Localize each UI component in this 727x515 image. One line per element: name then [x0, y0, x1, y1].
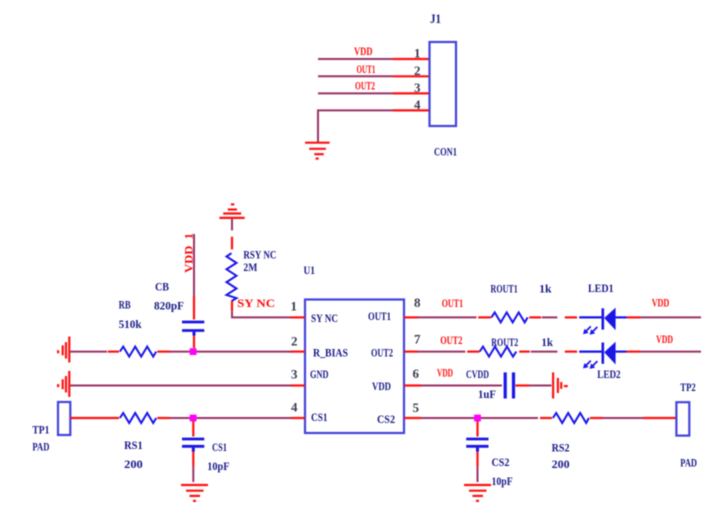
capacitor CS2 — [466, 439, 488, 452]
wire CS1 to ground — [192, 466, 194, 482]
resistor RS2 — [553, 413, 589, 423]
svg-text:PAD: PAD — [32, 442, 49, 454]
resistor RB — [120, 347, 156, 357]
svg-text:PAD: PAD — [680, 458, 697, 470]
svg-text:OUT2: OUT2 — [371, 348, 393, 360]
svg-text:200: 200 — [552, 459, 570, 471]
RB left pin — [108, 351, 119, 353]
svg-text:CON1: CON1 — [434, 147, 457, 159]
svg-text:CVDD: CVDD — [466, 369, 489, 381]
capacitor CS1 — [182, 439, 204, 452]
svg-text:5: 5 — [413, 400, 420, 415]
svg-text:J1: J1 — [430, 11, 441, 26]
resistor RS1 — [120, 413, 156, 423]
svg-text:SY NC: SY NC — [311, 313, 338, 325]
wire CS2 to ground — [477, 466, 479, 482]
svg-text:CS1: CS1 — [212, 442, 227, 454]
RS2 left pin — [540, 417, 552, 419]
wire U1 pin6 to CVDD — [421, 385, 502, 387]
svg-text:VDD: VDD — [437, 368, 453, 380]
svg-text:GND: GND — [310, 369, 329, 381]
capacitor CVDD — [505, 372, 513, 398]
svg-text:10pF: 10pF — [492, 476, 513, 488]
wire ROUT2 to LED2 — [531, 351, 558, 353]
svg-text:RS2: RS2 — [552, 442, 570, 454]
ground (left, on R_BIAS wire) — [58, 337, 69, 363]
RSY bottom pin — [231, 301, 233, 311]
CB bottom pin — [193, 336, 195, 349]
junction CS2 — [474, 415, 481, 422]
svg-text:8: 8 — [414, 295, 421, 310]
svg-text:VDD: VDD — [372, 381, 391, 393]
resistor ROUT2 — [480, 347, 517, 357]
junction CB / R_BIAS — [190, 348, 197, 355]
CS2 top pin — [476, 421, 478, 437]
wire net OUT2 to J1 pin3 — [318, 92, 393, 94]
svg-text:CS2: CS2 — [492, 457, 510, 469]
wire U1 pin5 to RS2 — [421, 417, 538, 419]
svg-text:ROUT2: ROUT2 — [491, 337, 518, 349]
LED2 cathode pin — [627, 351, 640, 353]
ROUT2 right pin — [519, 351, 530, 353]
U1 pin 5 — [404, 417, 421, 419]
J1 pin 2 — [393, 75, 430, 77]
svg-text:10pF: 10pF — [207, 461, 229, 473]
svg-text:VDD: VDD — [656, 334, 673, 346]
ROUT1 right pin — [529, 316, 541, 318]
svg-text:1k: 1k — [539, 283, 552, 295]
svg-text:1: 1 — [291, 299, 298, 314]
resistor RSY NC — [227, 253, 237, 301]
svg-text:TP1: TP1 — [32, 425, 49, 437]
TP1 pin to RS1 — [70, 417, 119, 419]
svg-text:4: 4 — [414, 97, 421, 112]
svg-text:ROUT1: ROUT1 — [491, 283, 518, 295]
J1 pin 1 — [393, 58, 430, 60]
svg-text:4: 4 — [291, 400, 298, 415]
svg-text:RS1: RS1 — [124, 440, 143, 452]
svg-text:CB: CB — [155, 282, 169, 294]
wire ROUT1 to LED1 — [542, 316, 558, 318]
wire ground to J1 pin4 — [318, 110, 393, 142]
ROUT1 left pin — [478, 316, 491, 318]
svg-text:OUT1: OUT1 — [357, 64, 376, 76]
CS1 top pin — [192, 421, 194, 437]
wire RSY to U1 pin1 — [232, 311, 291, 317]
svg-text:VDD: VDD — [652, 297, 670, 309]
svg-text:3: 3 — [291, 367, 298, 382]
TP2 pin — [643, 417, 676, 419]
svg-text:RB: RB — [119, 300, 131, 312]
connector J1 body — [430, 42, 457, 126]
svg-text:R_BIAS: R_BIAS — [313, 348, 348, 360]
U1 pin 7 — [404, 351, 418, 353]
ground (below CS1) — [181, 485, 208, 501]
svg-text:TP2: TP2 — [680, 382, 696, 394]
svg-text:2: 2 — [291, 333, 298, 348]
ground (right of CVDD) — [553, 372, 568, 398]
svg-text:LED2: LED2 — [597, 369, 620, 381]
wire net OUT1 to J1 pin2 — [318, 75, 393, 77]
wire LED1 to VDD — [640, 316, 701, 318]
svg-text:820pF: 820pF — [154, 301, 184, 313]
wire U1 pin7 to ROUT2 — [418, 351, 466, 353]
junction CS1 / CS1 wire — [190, 415, 197, 422]
wire net VDD to J1 pin1 — [318, 58, 393, 60]
svg-text:200: 200 — [124, 459, 143, 471]
op IC U1 body — [305, 300, 404, 434]
U1 pin 4 — [290, 417, 305, 419]
wire VDD_1 down to CB — [193, 234, 195, 296]
svg-text:6: 6 — [413, 366, 420, 381]
RB right pin — [157, 351, 170, 353]
CB top pin — [193, 296, 195, 320]
wire RS1 to U1 pin4 — [170, 417, 291, 419]
LED2 anode pin (dash) — [565, 351, 577, 353]
U1 pin 1 — [290, 316, 305, 318]
U1 pin 8 — [404, 316, 418, 318]
wire U1 pin8 to ROUT1 — [418, 316, 477, 318]
ground (top, above RSY) — [219, 204, 244, 218]
svg-text:3: 3 — [414, 80, 421, 95]
wire ground to RB — [70, 351, 107, 353]
diode LED1 — [579, 308, 626, 335]
svg-text:CS1: CS1 — [311, 412, 328, 424]
U1 pin 6 — [404, 384, 421, 386]
LED1 cathode pin — [627, 316, 640, 318]
CS1 bottom pin — [192, 452, 194, 467]
wire top ground to RSY — [231, 219, 233, 230]
ground (below J1 pin4 wire) — [305, 143, 330, 159]
svg-text:2: 2 — [414, 63, 421, 78]
svg-text:7: 7 — [414, 332, 421, 347]
svg-text:OUT1: OUT1 — [368, 311, 391, 323]
wire LED2 to VDD — [640, 351, 701, 353]
wire RS2 to TP2 — [603, 417, 643, 419]
RS1 right pin — [157, 417, 170, 419]
svg-text:510k: 510k — [119, 319, 143, 331]
ground (below CS2) — [464, 485, 491, 501]
resistor ROUT1 — [491, 312, 527, 322]
svg-text:LED1: LED1 — [588, 283, 614, 295]
ROUT2 left pin — [467, 351, 479, 353]
svg-text:U1: U1 — [304, 265, 316, 277]
U1 pin 2 — [290, 351, 305, 353]
svg-text:1uF: 1uF — [478, 389, 496, 401]
svg-text:OUT1: OUT1 — [442, 298, 464, 310]
svg-text:1: 1 — [414, 45, 421, 60]
svg-text:CS2: CS2 — [377, 414, 395, 426]
RSY top pin — [231, 237, 233, 250]
ground (left, on GND wire) — [58, 371, 69, 397]
RS2 right pin — [590, 417, 603, 419]
svg-text:2M: 2M — [243, 262, 257, 274]
U1 pin 3 — [290, 384, 305, 386]
test point TP1 — [58, 402, 70, 435]
capacitor CB — [182, 322, 204, 336]
J1 pin 4 — [393, 109, 430, 111]
wire RB to U1 pin2 — [170, 351, 291, 353]
CVDD right pin — [516, 384, 530, 386]
svg-text:OUT2: OUT2 — [355, 81, 375, 93]
svg-text:1k: 1k — [541, 337, 553, 349]
test point TP2 — [676, 402, 689, 435]
svg-text:RSY NC: RSY NC — [243, 249, 276, 261]
CS2 bottom pin — [476, 452, 478, 467]
wire CVDD to ground — [529, 385, 552, 387]
wire ground to U1 pin3 GND — [70, 385, 291, 387]
svg-text:SY NC: SY NC — [237, 298, 275, 310]
svg-text:VDD: VDD — [354, 46, 373, 58]
LED1 anode pin (dash) — [565, 316, 577, 318]
diode LED2 — [579, 342, 626, 369]
J1 pin 3 — [393, 92, 430, 94]
svg-text:OUT2: OUT2 — [440, 335, 462, 347]
